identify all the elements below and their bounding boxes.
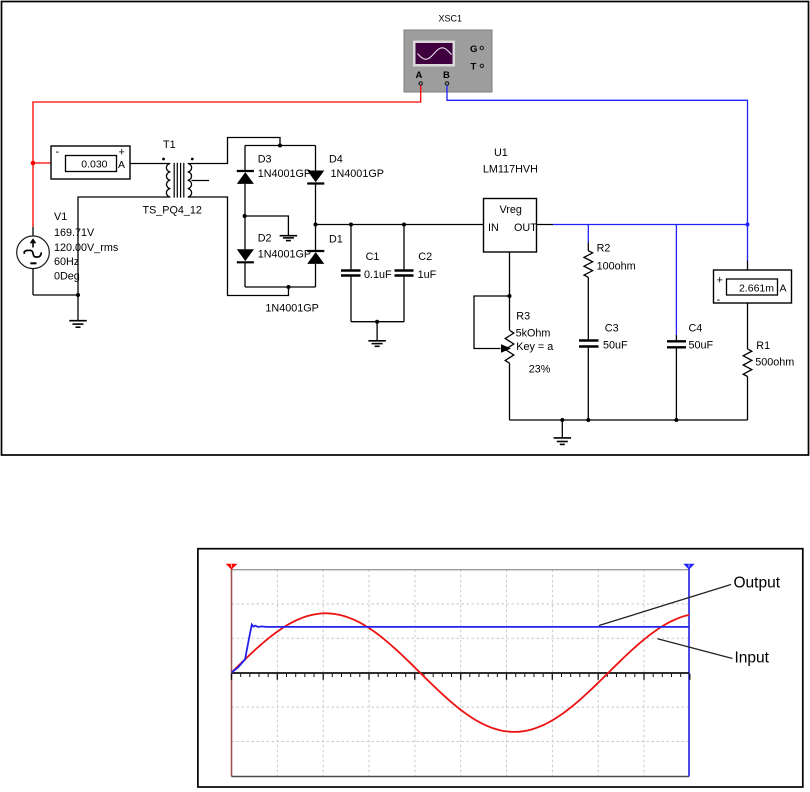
- svg-text:R2: R2: [597, 243, 611, 255]
- capacitor C2 1uF: [395, 225, 414, 322]
- node: V1 ground junction: [76, 293, 80, 297]
- svg-text:Output: Output: [734, 574, 781, 591]
- svg-text:V1: V1: [54, 211, 67, 223]
- svg-text:LM117HVH: LM117HVH: [483, 164, 538, 176]
- wire: U1 ADJ pin to R3 top: [509, 252, 511, 330]
- scope plot grid: [232, 570, 690, 777]
- svg-text:1uF: 1uF: [418, 269, 437, 281]
- capacitor C4 50uF: [667, 335, 686, 420]
- potentiometer R3 5kOhm: [505, 330, 514, 363]
- transformer T1: [162, 158, 209, 198]
- svg-text:+: +: [119, 147, 125, 159]
- wire: ammeter to T1 primary top: [130, 163, 167, 165]
- node: V1 top / ammeter junction: [31, 161, 36, 166]
- scope left axis (channel A): [226, 564, 238, 777]
- scope time axis with ticks: [232, 673, 690, 680]
- ammeter indicator U2 (0.030 A): [51, 146, 130, 179]
- svg-text:U1: U1: [494, 147, 508, 159]
- svg-text:+: +: [717, 275, 723, 287]
- ground symbol at bridge center: [280, 235, 298, 241]
- svg-text:120.00V_rms: 120.00V_rms: [54, 242, 119, 254]
- svg-text:B: B: [443, 70, 450, 81]
- svg-text:1N4001GP: 1N4001GP: [331, 168, 384, 180]
- svg-text:TS_PQ4_12: TS_PQ4_12: [143, 205, 202, 217]
- ammeter indicator U3 (2.661m A): [714, 270, 792, 306]
- svg-text:C3: C3: [605, 322, 619, 334]
- wire: D3 anode to left center node: [244, 184, 246, 249]
- wire: R3 bottom to ground rail: [509, 363, 511, 420]
- wire: bridge bottom rail: [245, 286, 316, 288]
- wire: ammeter to R1: [747, 303, 749, 349]
- label V1: [54, 211, 119, 283]
- node: bridge top junction: [278, 144, 282, 148]
- node: bridge left center junction: [243, 214, 247, 218]
- svg-text:60Hz: 60Hz: [54, 256, 79, 268]
- svg-text:XSC1: XSC1: [439, 14, 463, 24]
- node: filter ground junction: [375, 320, 379, 324]
- svg-text:0.1uF: 0.1uF: [364, 269, 392, 281]
- wire: top rail to D4: [315, 146, 317, 171]
- wire: output rail to C4 (blue): [675, 225, 677, 336]
- wire: output rail to R2 (blue): [587, 225, 589, 243]
- oscilloscope XSC1: [404, 14, 492, 93]
- svg-text:Vreg: Vreg: [500, 204, 522, 216]
- svg-text:C1: C1: [366, 251, 380, 263]
- diode D3 1N4001GP: [237, 171, 254, 184]
- svg-text:OUT: OUT: [514, 222, 537, 234]
- svg-text:D4: D4: [329, 154, 343, 166]
- resistor R1 500ohm: [743, 349, 752, 377]
- svg-text:2.661m: 2.661m: [739, 282, 774, 294]
- svg-text:A: A: [416, 70, 423, 81]
- capacitor C1 0.1uF: [341, 225, 361, 322]
- node: R3 top junction: [508, 294, 512, 298]
- diode D1 1N4001GP: [307, 251, 324, 264]
- scope plot frame: [198, 549, 803, 787]
- svg-text:D2: D2: [258, 233, 272, 245]
- wire: R3 wiper loop: [474, 296, 510, 349]
- wire: junction to ammeter XMM1 (red): [33, 162, 51, 164]
- R3 wiper arrow: [501, 344, 511, 352]
- diode D4 1N4001GP: [307, 171, 324, 184]
- svg-text:IN: IN: [488, 222, 499, 234]
- svg-text:0Deg: 0Deg: [54, 271, 80, 283]
- wire: output node down to D1: [315, 225, 317, 251]
- svg-text:R3: R3: [516, 311, 530, 323]
- scope right axis (channel B): [683, 564, 694, 777]
- node: C2 top junction: [402, 223, 406, 227]
- svg-text:R1: R1: [756, 340, 770, 352]
- svg-text:169.71V: 169.71V: [54, 227, 95, 239]
- svg-text:T1: T1: [163, 139, 176, 151]
- capacitor C3 50uF: [579, 341, 599, 421]
- svg-text:C4: C4: [689, 322, 703, 334]
- output trace (blue): [232, 625, 690, 673]
- wire: T1 primary bottom to ground node: [78, 197, 167, 295]
- node: C3 bottom junction: [586, 418, 590, 422]
- node: C4 bottom junction: [674, 418, 678, 422]
- wire: D2 cathode to bottom rail: [244, 262, 246, 287]
- svg-text:1N4001GP: 1N4001GP: [258, 168, 311, 180]
- voltage regulator U1 LM117HVH: [484, 199, 538, 253]
- annotation pointer: Input: [658, 639, 733, 659]
- wire: top rail to D3: [244, 146, 246, 171]
- svg-text:-: -: [56, 146, 60, 158]
- wire: output rail (blue): [553, 224, 748, 226]
- svg-text:0.030: 0.030: [81, 159, 107, 171]
- svg-text:50uF: 50uF: [689, 340, 714, 352]
- ground symbol at V1: [69, 295, 87, 327]
- wire: T1 secondary bottom to bridge bottom rail: [192, 197, 289, 296]
- svg-text:Input: Input: [735, 650, 770, 667]
- wire: bridge center node to ground: [245, 216, 289, 235]
- node: C1 top junction: [349, 223, 353, 227]
- svg-text:G: G: [470, 44, 477, 55]
- ground symbol at bottom rail: [554, 420, 572, 444]
- diode D2 1N4001GP: [237, 249, 254, 262]
- AC voltage source V1: [17, 227, 50, 295]
- wire: C1/C2 bottoms joined: [351, 321, 404, 323]
- resistor R2 100ohm: [584, 243, 593, 340]
- wire: bridge top rail: [245, 145, 316, 147]
- svg-text:T: T: [471, 62, 477, 73]
- wire: scope channel A to V1 top node (red): [33, 85, 421, 227]
- svg-text:500ohm: 500ohm: [755, 357, 794, 369]
- input trace (red sine): [232, 613, 690, 732]
- svg-text:50uF: 50uF: [603, 340, 628, 352]
- wire: V1 bottom to ground node: [33, 294, 78, 296]
- svg-text:23%: 23%: [529, 364, 551, 376]
- node: ammeter branch junction (blue): [746, 223, 750, 227]
- wire: blue node to ammeter U3: [747, 261, 749, 271]
- svg-text:100ohm: 100ohm: [597, 260, 636, 272]
- svg-text:-: -: [717, 294, 721, 306]
- svg-text:C2: C2: [418, 251, 432, 263]
- wire: T1 secondary top to bridge top rail: [192, 138, 281, 164]
- svg-text:D3: D3: [258, 154, 272, 166]
- wire: D4 cathode to output node: [315, 184, 317, 225]
- svg-text:A: A: [780, 282, 787, 294]
- svg-text:1N4001GP: 1N4001GP: [258, 249, 311, 261]
- svg-text:1N4001GP: 1N4001GP: [265, 303, 318, 315]
- svg-text:A: A: [118, 159, 125, 171]
- node: bridge bottom junction: [287, 285, 291, 289]
- node: rectifier output junction: [314, 223, 318, 227]
- annotation pointer: Output: [599, 585, 731, 626]
- wire: regulator OUT lead: [537, 224, 554, 226]
- svg-text:Key = a: Key = a: [516, 341, 553, 353]
- wire: rectifier output rail to regulator IN: [316, 224, 484, 226]
- wire: scope channel B to output rail (blue): [447, 85, 748, 260]
- wire: D1 anode to bottom rail: [315, 264, 317, 287]
- wire: R1 bottom to ground rail: [747, 377, 749, 421]
- wire: bottom ground rail: [510, 419, 748, 421]
- svg-text:D1: D1: [329, 234, 343, 246]
- node: ground rail at ground symbol: [560, 418, 564, 422]
- ground symbol at C1/C2: [368, 322, 386, 347]
- svg-text:5kOhm: 5kOhm: [516, 328, 551, 340]
